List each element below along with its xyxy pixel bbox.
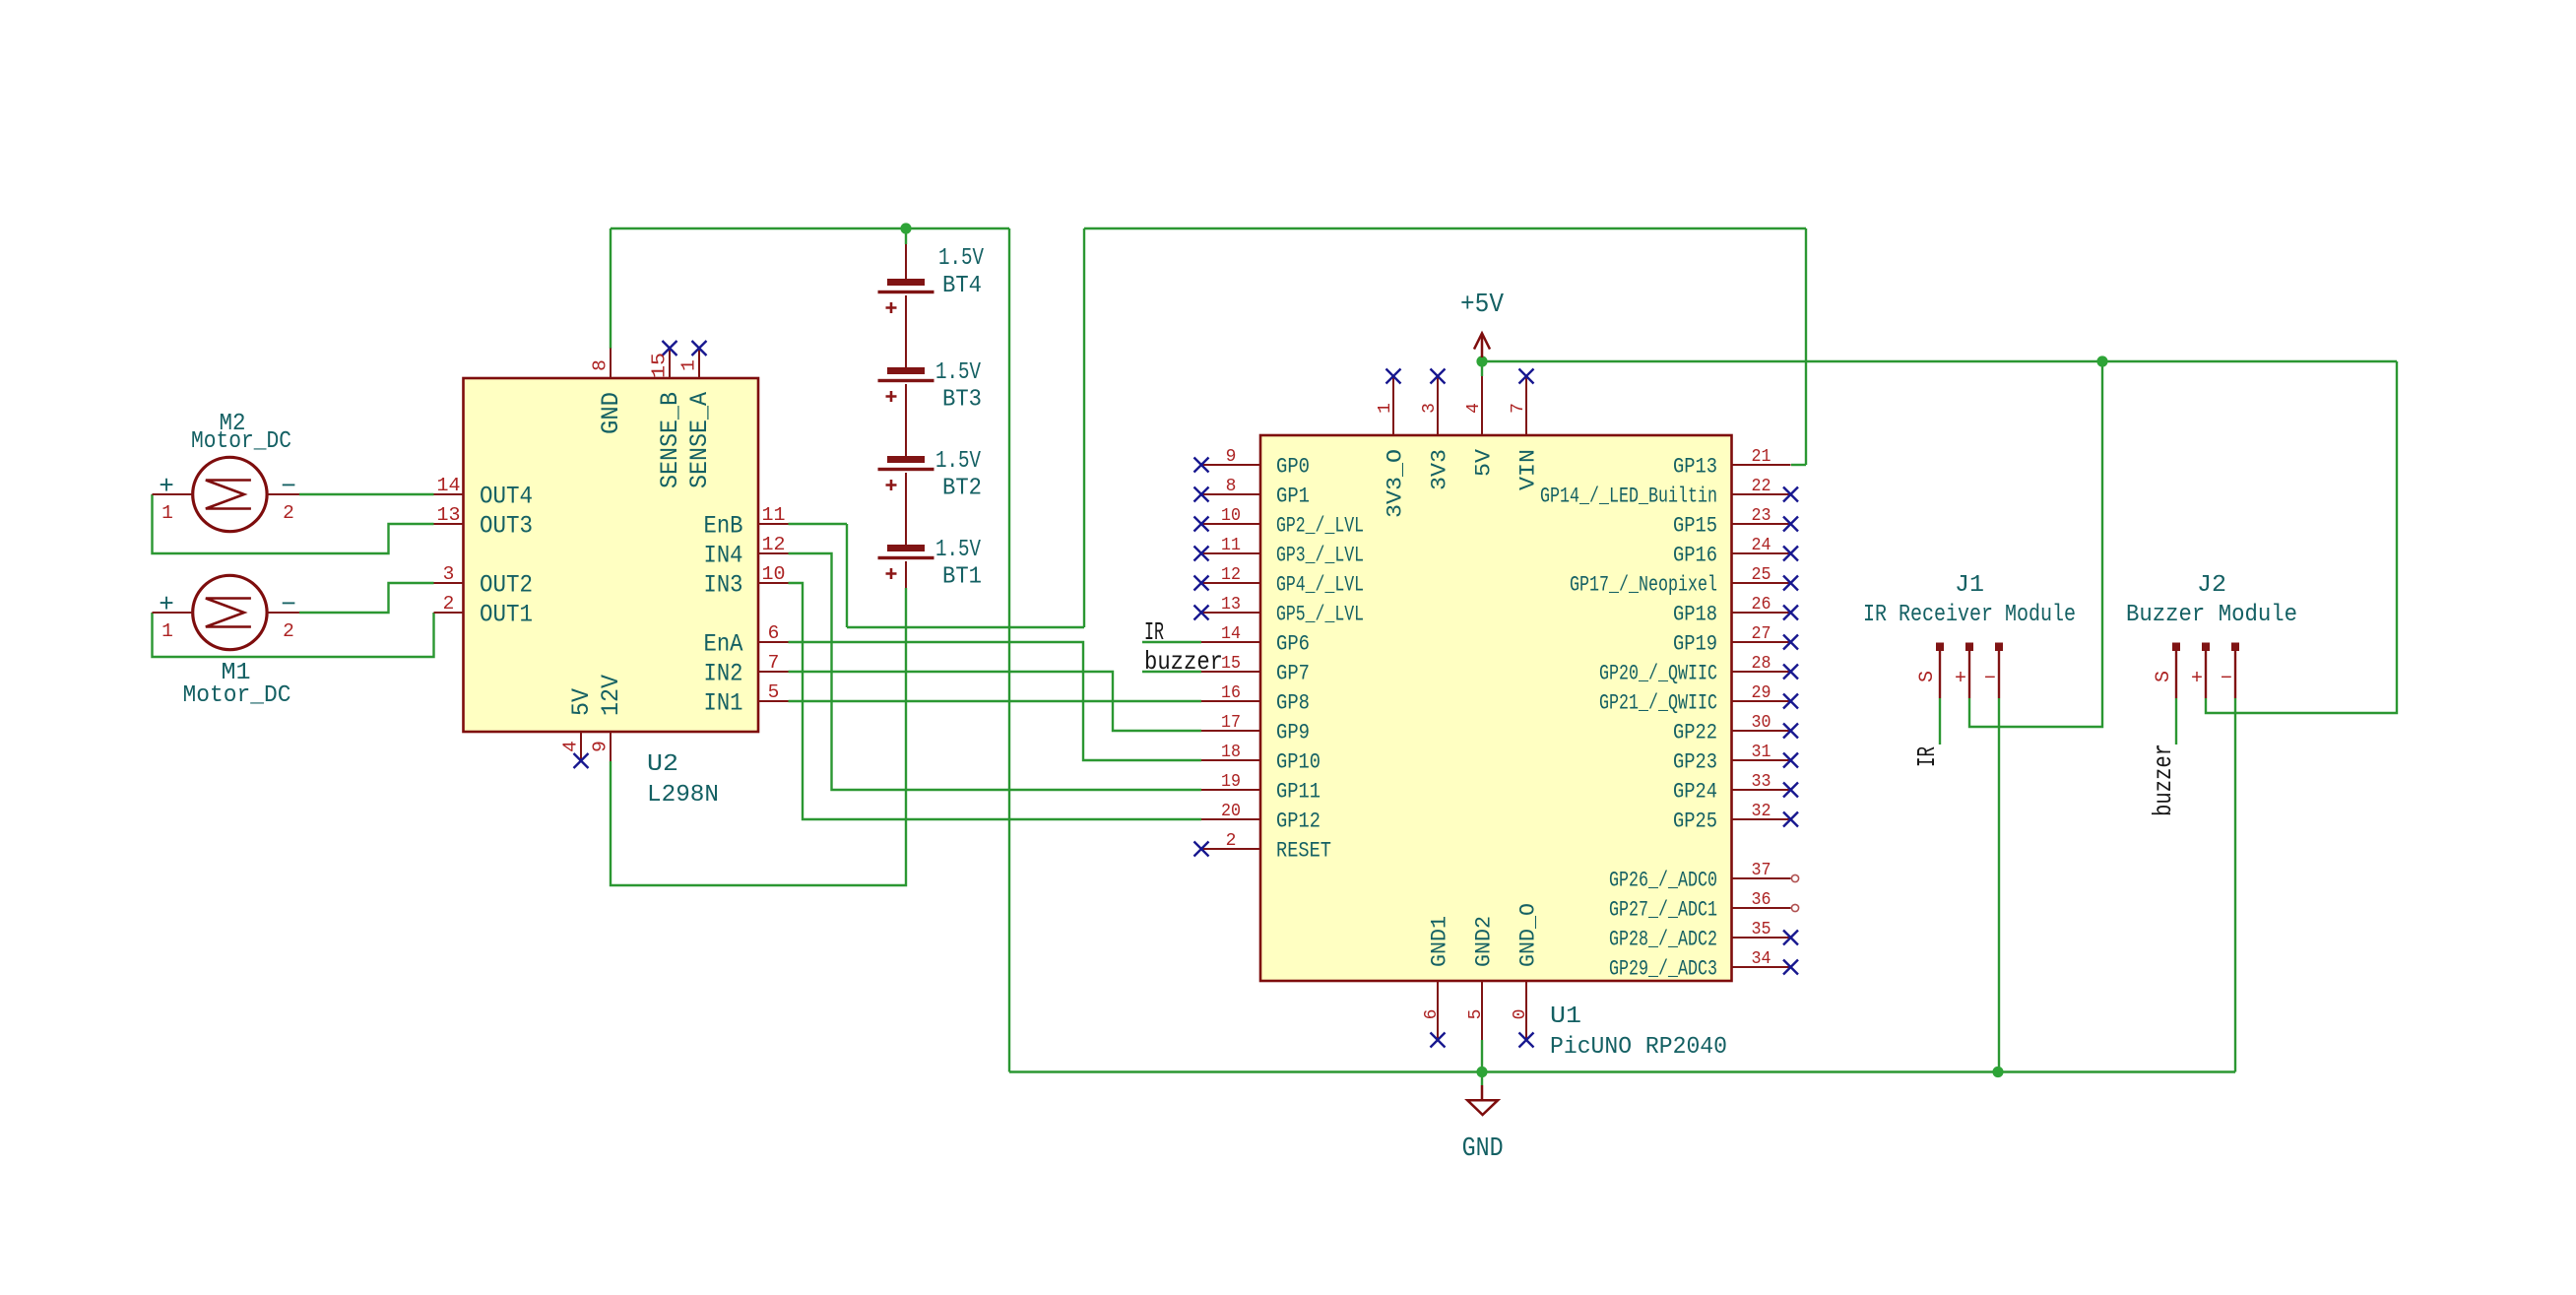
svg-text:OUT2: OUT2 bbox=[480, 571, 533, 600]
svg-text:19: 19 bbox=[1221, 772, 1241, 792]
svg-text:7: 7 bbox=[1509, 403, 1528, 414]
svg-text:GP27_/_ADC1: GP27_/_ADC1 bbox=[1609, 898, 1717, 923]
battery BT4 1.5V cell bbox=[878, 245, 985, 313]
svg-text:0: 0 bbox=[1511, 1009, 1530, 1020]
svg-text:GP16: GP16 bbox=[1673, 544, 1717, 568]
svg-text:35: 35 bbox=[1752, 920, 1771, 939]
IC U1 PicUNO RP2040 body bbox=[1260, 435, 1732, 981]
U1 pin 9 GP0 with no-connect X bbox=[1194, 447, 1311, 480]
U1 pin 34 GP29_/_ADC3 with no-connect X bbox=[1609, 949, 1798, 982]
svg-text:GP20_/_QWIIC: GP20_/_QWIIC bbox=[1599, 662, 1717, 686]
motor M2 M symbol bbox=[206, 481, 251, 509]
svg-text:EnB: EnB bbox=[704, 512, 743, 541]
svg-text:GP9: GP9 bbox=[1276, 721, 1310, 745]
net label buzzer at GP7 bbox=[1144, 647, 1223, 677]
M1 pin 1 (+) bbox=[153, 590, 193, 642]
svg-text:1: 1 bbox=[161, 502, 173, 524]
svg-text:GP12: GP12 bbox=[1276, 809, 1320, 834]
svg-text:GP28_/_ADC2: GP28_/_ADC2 bbox=[1609, 928, 1717, 952]
svg-text:GP21_/_QWIIC: GP21_/_QWIIC bbox=[1599, 691, 1717, 716]
wire +5V pin to +5V symbol bbox=[1481, 361, 1483, 376]
wire IR net label stub at GP6 bbox=[1142, 641, 1201, 643]
svg-text:IR: IR bbox=[1144, 617, 1164, 647]
svg-text:1: 1 bbox=[161, 620, 173, 642]
svg-text:3V3: 3V3 bbox=[1428, 449, 1452, 490]
U1 pin 35 GP28_/_ADC2 with no-connect X bbox=[1609, 920, 1798, 952]
svg-text:−: − bbox=[1984, 668, 1996, 690]
U1 pin 22 GP14_/_LED_Builtin with no-connect X bbox=[1540, 477, 1798, 509]
svg-text:28: 28 bbox=[1752, 654, 1771, 674]
svg-text:2: 2 bbox=[1226, 831, 1237, 851]
U1 pin 7 VIN (top) with no-connect X bbox=[1509, 369, 1541, 491]
U1 pin 27 GP19 with no-connect X bbox=[1673, 624, 1798, 657]
svg-text:GP26_/_ADC0: GP26_/_ADC0 bbox=[1609, 869, 1717, 893]
motor M1 body circle bbox=[193, 575, 267, 649]
U1 pin 28 GP20_/_QWIIC with no-connect X bbox=[1599, 654, 1798, 686]
svg-text:4: 4 bbox=[1464, 403, 1484, 414]
wire M1 minus to OUT2 bbox=[299, 583, 434, 613]
U1 pin 29 GP21_/_QWIIC with no-connect X bbox=[1599, 683, 1798, 716]
svg-text:4: 4 bbox=[560, 741, 582, 752]
wire J1 S pin stub to IR label bbox=[1939, 698, 1941, 745]
wire top GND rail left segment (U2 pin8 to corner x1025) bbox=[611, 227, 1009, 229]
U1 pin 1 3V3_O (top) with no-connect X bbox=[1376, 369, 1408, 519]
svg-text:+: + bbox=[2191, 668, 2203, 690]
svg-text:12: 12 bbox=[762, 534, 786, 555]
wire J2 minus to GND rail bbox=[2234, 698, 2236, 1072]
svg-text:GND2: GND2 bbox=[1472, 916, 1497, 967]
svg-text:2: 2 bbox=[443, 593, 455, 615]
svg-text:IN2: IN2 bbox=[704, 660, 743, 688]
svg-text:GP23: GP23 bbox=[1673, 750, 1717, 775]
svg-text:GP14_/_LED_Builtin: GP14_/_LED_Builtin bbox=[1540, 485, 1717, 509]
svg-text:26: 26 bbox=[1752, 595, 1771, 615]
svg-text:7: 7 bbox=[768, 652, 780, 674]
motor M1 M symbol bbox=[206, 599, 251, 627]
svg-text:Buzzer Module: Buzzer Module bbox=[2126, 602, 2297, 628]
svg-text:Motor_DC: Motor_DC bbox=[183, 682, 291, 709]
svg-text:buzzer: buzzer bbox=[2149, 744, 2178, 816]
svg-text:1: 1 bbox=[1376, 403, 1395, 414]
battery stack connecting pins bbox=[905, 244, 907, 588]
U1 pin 16 GP8 bbox=[1201, 683, 1310, 716]
svg-text:14: 14 bbox=[1221, 624, 1241, 644]
U1 pin 17 GP9 bbox=[1201, 713, 1310, 745]
svg-text:GP18: GP18 bbox=[1673, 603, 1717, 627]
U1 pin 5 GND2 (bottom) bbox=[1466, 916, 1497, 1040]
svg-text:−: − bbox=[2221, 668, 2232, 690]
svg-text:+5V: +5V bbox=[1460, 291, 1505, 320]
svg-text:IR Receiver Module: IR Receiver Module bbox=[1863, 602, 2076, 628]
U1 pin 30 GP22 with no-connect X bbox=[1673, 713, 1798, 745]
svg-text:17: 17 bbox=[1221, 713, 1241, 733]
svg-text:GND: GND bbox=[1462, 1134, 1504, 1164]
svg-text:GP7: GP7 bbox=[1276, 662, 1310, 686]
svg-text:5: 5 bbox=[1466, 1009, 1486, 1020]
U2 pin 4 5V (bottom) with no-connect X bbox=[560, 688, 596, 768]
U1 pin 20 GP12 bbox=[1201, 802, 1320, 834]
svg-text:5V: 5V bbox=[1472, 448, 1497, 477]
svg-text:13: 13 bbox=[437, 504, 461, 526]
svg-text:3V3_O: 3V3_O bbox=[1384, 449, 1408, 518]
svg-text:J1: J1 bbox=[1955, 572, 1984, 599]
U1 pin 21 GP13 bbox=[1673, 447, 1791, 480]
svg-text:9: 9 bbox=[590, 741, 612, 752]
wire IN3 to GP12 bbox=[789, 583, 1202, 819]
U1 pin 13 GP5_/_LVL with no-connect X bbox=[1194, 595, 1365, 627]
U2 pin 3 OUT2 bbox=[434, 563, 534, 600]
U1 pin 0 GND_O (bottom) with no-connect X bbox=[1511, 903, 1541, 1048]
U1 pin 24 GP16 with no-connect X bbox=[1673, 536, 1798, 568]
U1 pin 12 GP4_/_LVL with no-connect X bbox=[1194, 565, 1365, 598]
U1 pin 2 RESET with no-connect X bbox=[1194, 831, 1332, 864]
svg-text:37: 37 bbox=[1752, 861, 1771, 880]
M2 pin 1 (+) bbox=[153, 472, 193, 524]
U1 pin 14 GP6 bbox=[1201, 624, 1310, 657]
wire buzzer net label stub at GP7 bbox=[1142, 671, 1201, 673]
svg-text:GP19: GP19 bbox=[1673, 632, 1717, 657]
svg-text:3: 3 bbox=[1420, 403, 1440, 414]
svg-text:1.5V: 1.5V bbox=[935, 537, 981, 563]
wire top rail right segment to GP13 riser bbox=[1084, 227, 1806, 229]
U2 pin 8 GND (top) bbox=[590, 349, 625, 435]
svg-text:+: + bbox=[1955, 668, 1966, 690]
net label buzzer at J2 S (vertical) bbox=[2149, 744, 2178, 816]
U2 pin 9 12V (bottom) bbox=[590, 675, 625, 761]
svg-text:J2: J2 bbox=[2197, 572, 2226, 599]
svg-text:12V: 12V bbox=[597, 675, 625, 716]
junction +5V at 5V pin bbox=[1476, 356, 1487, 366]
svg-text:−: − bbox=[281, 590, 296, 619]
svg-text:23: 23 bbox=[1752, 506, 1771, 526]
svg-text:33: 33 bbox=[1752, 772, 1771, 792]
svg-text:S: S bbox=[1916, 671, 1939, 682]
svg-text:GP2_/_LVL: GP2_/_LVL bbox=[1276, 514, 1364, 539]
svg-text:IN1: IN1 bbox=[704, 689, 743, 718]
junction +5V rail at J1 feed drop bbox=[2096, 356, 2107, 366]
svg-text:EnA: EnA bbox=[704, 630, 743, 659]
svg-text:+: + bbox=[159, 590, 174, 619]
ground symbol GND bbox=[1462, 1085, 1504, 1164]
svg-text:1: 1 bbox=[678, 359, 700, 371]
svg-text:GP15: GP15 bbox=[1673, 514, 1717, 539]
svg-text:VIN: VIN bbox=[1516, 449, 1541, 490]
M2 reference designator bbox=[220, 411, 246, 437]
svg-text:SENSE_A: SENSE_A bbox=[685, 392, 714, 488]
wire M2 minus to OUT4 bbox=[299, 493, 434, 495]
wire battery bottom to U2 12V pin bbox=[611, 588, 906, 885]
svg-text:GP4_/_LVL: GP4_/_LVL bbox=[1276, 573, 1364, 598]
net label IR at J1 S (vertical) bbox=[1912, 746, 1942, 767]
svg-text:GP11: GP11 bbox=[1276, 780, 1320, 805]
wire +5V rail to right side bbox=[1482, 360, 2397, 362]
U1 pin 6 GND1 (bottom) with no-connect X bbox=[1422, 916, 1452, 1048]
U1 pin 25 GP17_/_Neopixel with no-connect X bbox=[1570, 565, 1798, 598]
battery BT1 1.5V cell bbox=[878, 537, 983, 591]
wire U2 pin8 GND up to top rail bbox=[610, 228, 612, 349]
wire M1 plus loop to OUT1 bbox=[153, 613, 434, 657]
U2 pin 2 OUT1 bbox=[434, 593, 534, 629]
svg-text:BT1: BT1 bbox=[942, 564, 982, 591]
U2 pin 5 IN1 bbox=[704, 681, 789, 718]
svg-text:10: 10 bbox=[1221, 506, 1241, 526]
wire IN2 to GP9 bbox=[789, 672, 1202, 731]
svg-text:15: 15 bbox=[1221, 654, 1241, 674]
svg-text:22: 22 bbox=[1752, 477, 1771, 496]
U2 value L298N bbox=[647, 782, 719, 809]
svg-text:5: 5 bbox=[768, 681, 780, 703]
wire +5V feed to J2 plus pin bbox=[2206, 361, 2397, 713]
U1 pin 4 5V (top) bbox=[1464, 376, 1497, 477]
svg-text:24: 24 bbox=[1752, 536, 1771, 555]
svg-text:OUT4: OUT4 bbox=[480, 483, 533, 511]
svg-text:29: 29 bbox=[1752, 683, 1771, 703]
U2 pin 11 EnB bbox=[704, 504, 789, 541]
M2 value Motor_DC bbox=[191, 428, 291, 455]
svg-text:RESET: RESET bbox=[1276, 839, 1331, 864]
IC U2 L298N body bbox=[464, 378, 759, 732]
wire EnA to GP10 bbox=[789, 642, 1202, 760]
J2 pin 1 S bbox=[2153, 643, 2180, 699]
connector J1 IR Receiver Module bbox=[1863, 572, 2076, 628]
wire bottom GND rail bbox=[1009, 1070, 2235, 1072]
U1 pin 8 GP1 with no-connect X bbox=[1194, 477, 1311, 509]
wire U1 GND2 pin to GND rail and GND symbol bbox=[1481, 1040, 1483, 1085]
svg-text:U2: U2 bbox=[647, 751, 678, 778]
U2 reference designator bbox=[647, 751, 678, 778]
U2 pin 7 IN2 bbox=[704, 652, 789, 688]
U2 pin 1 SENSE_A (top) with no-connect X bbox=[678, 341, 714, 488]
svg-text:21: 21 bbox=[1752, 447, 1771, 467]
svg-text:GP29_/_ADC3: GP29_/_ADC3 bbox=[1609, 957, 1717, 982]
svg-text:16: 16 bbox=[1221, 683, 1241, 703]
svg-text:IR: IR bbox=[1912, 746, 1942, 767]
svg-text:11: 11 bbox=[762, 504, 786, 526]
svg-text:buzzer: buzzer bbox=[1144, 647, 1223, 677]
svg-text:BT3: BT3 bbox=[942, 387, 982, 414]
connector J2 Buzzer Module bbox=[2126, 572, 2297, 628]
svg-text:34: 34 bbox=[1752, 949, 1771, 969]
svg-text:6: 6 bbox=[768, 622, 780, 644]
wire IN4 to GP11 bbox=[789, 553, 1202, 790]
svg-text:11: 11 bbox=[1221, 536, 1241, 555]
U1 value PicUNO RP2040 bbox=[1550, 1034, 1727, 1061]
svg-text:25: 25 bbox=[1752, 565, 1771, 585]
U1 pin 23 GP15 with no-connect X bbox=[1673, 506, 1798, 539]
wire battery top to GND rail bbox=[905, 228, 907, 244]
svg-text:GP8: GP8 bbox=[1276, 691, 1310, 716]
wire EnB net: riser x1101 down, left to x860, up to EnB pin bbox=[789, 228, 1085, 627]
junction GND rail at J1 minus drop bbox=[1992, 1067, 2003, 1077]
junction GND rail at GND symbol bbox=[1476, 1067, 1487, 1077]
junction battery top / GND rail bbox=[900, 223, 911, 233]
U2 pin 14 OUT4 bbox=[434, 475, 534, 511]
svg-text:OUT3: OUT3 bbox=[480, 512, 533, 541]
svg-text:U1: U1 bbox=[1550, 1004, 1581, 1030]
U1 pin 31 GP23 with no-connect X bbox=[1673, 743, 1798, 775]
svg-text:12: 12 bbox=[1221, 565, 1241, 585]
svg-text:BT4: BT4 bbox=[942, 273, 982, 299]
svg-text:GP25: GP25 bbox=[1673, 809, 1717, 834]
J1 pin 1 S bbox=[1916, 643, 1944, 699]
svg-text:1.5V: 1.5V bbox=[935, 359, 981, 386]
U1 pin 32 GP25 with no-connect X bbox=[1673, 802, 1798, 834]
svg-text:20: 20 bbox=[1221, 802, 1241, 821]
svg-text:1.5V: 1.5V bbox=[938, 245, 984, 272]
svg-text:8: 8 bbox=[590, 359, 612, 371]
U1 pin 36 GP27_/_ADC1 with unconnected circle bbox=[1609, 890, 1799, 923]
U2 pin 13 OUT3 bbox=[434, 504, 534, 541]
svg-text:30: 30 bbox=[1752, 713, 1771, 733]
svg-text:+: + bbox=[159, 472, 174, 501]
wire M2 plus loop to OUT3 bbox=[153, 494, 434, 553]
wire GND vertical drop x1025 from top rail to bottom rail bbox=[1008, 228, 1010, 1072]
svg-text:GP17_/_Neopixel: GP17_/_Neopixel bbox=[1570, 573, 1717, 598]
svg-text:6: 6 bbox=[1422, 1009, 1442, 1020]
svg-text:GND: GND bbox=[597, 392, 625, 434]
J2 pin 2 + bbox=[2191, 643, 2210, 699]
svg-text:1.5V: 1.5V bbox=[935, 448, 981, 475]
svg-text:GP1: GP1 bbox=[1276, 485, 1310, 509]
battery BT3 1.5V cell bbox=[878, 359, 983, 414]
svg-text:18: 18 bbox=[1221, 743, 1241, 762]
svg-text:L298N: L298N bbox=[647, 782, 719, 809]
motor M2 body circle bbox=[193, 457, 267, 531]
U2 pin 6 EnA bbox=[704, 622, 789, 659]
J1 pin 3 - bbox=[1984, 643, 2003, 699]
M2 pin 2 (-) bbox=[267, 472, 299, 524]
wire GP13 to riser x1834 bbox=[1791, 228, 1806, 465]
svg-text:2: 2 bbox=[283, 502, 294, 524]
svg-text:IN3: IN3 bbox=[704, 571, 743, 600]
power symbol +5V bbox=[1460, 291, 1505, 357]
svg-text:GP10: GP10 bbox=[1276, 750, 1320, 775]
U1 pin 37 GP26_/_ADC0 with unconnected circle bbox=[1609, 861, 1799, 893]
svg-text:GP3_/_LVL: GP3_/_LVL bbox=[1276, 544, 1364, 568]
svg-text:Motor_DC: Motor_DC bbox=[191, 428, 291, 455]
svg-text:3: 3 bbox=[443, 563, 455, 585]
svg-text:2: 2 bbox=[283, 620, 294, 642]
svg-text:SENSE_B: SENSE_B bbox=[656, 392, 684, 488]
U1 pin 3 3V3 (top) with no-connect X bbox=[1420, 369, 1452, 491]
svg-text:5V: 5V bbox=[567, 688, 596, 716]
svg-text:GND1: GND1 bbox=[1428, 916, 1452, 967]
svg-text:9: 9 bbox=[1226, 447, 1237, 467]
svg-text:GP22: GP22 bbox=[1673, 721, 1717, 745]
U1 pin 33 GP24 with no-connect X bbox=[1673, 772, 1798, 805]
battery BT2 1.5V cell bbox=[878, 448, 983, 502]
svg-text:15: 15 bbox=[649, 353, 671, 378]
svg-text:32: 32 bbox=[1752, 802, 1771, 821]
svg-text:IN4: IN4 bbox=[704, 542, 743, 570]
svg-text:PicUNO RP2040: PicUNO RP2040 bbox=[1550, 1034, 1727, 1061]
J2 pin 3 - bbox=[2221, 643, 2239, 699]
U2 pin 15 SENSE_B (top) with no-connect X bbox=[649, 341, 684, 488]
J1 pin 2 + bbox=[1955, 643, 1973, 699]
U2 pin 12 IN4 bbox=[704, 534, 789, 570]
net label IR at GP6 bbox=[1144, 617, 1164, 647]
U1 pin 18 GP10 bbox=[1201, 743, 1320, 775]
svg-text:GP5_/_LVL: GP5_/_LVL bbox=[1276, 603, 1364, 627]
svg-text:S: S bbox=[2153, 671, 2175, 682]
svg-text:BT2: BT2 bbox=[942, 476, 982, 502]
U1 reference designator bbox=[1550, 1004, 1581, 1030]
svg-text:OUT1: OUT1 bbox=[480, 601, 533, 629]
svg-text:10: 10 bbox=[762, 563, 786, 585]
svg-text:GP24: GP24 bbox=[1673, 780, 1717, 805]
wire +5V feed to J1 plus pin bbox=[1969, 361, 2102, 727]
M1 pin 2 (-) bbox=[267, 590, 299, 642]
svg-text:27: 27 bbox=[1752, 624, 1771, 644]
U1 pin 19 GP11 bbox=[1201, 772, 1320, 805]
U1 pin 11 GP3_/_LVL with no-connect X bbox=[1194, 536, 1365, 568]
U1 pin 15 GP7 bbox=[1201, 654, 1310, 686]
M1 reference designator bbox=[222, 660, 251, 686]
svg-text:13: 13 bbox=[1221, 595, 1241, 615]
U1 pin 10 GP2_/_LVL with no-connect X bbox=[1194, 506, 1365, 539]
U2 pin 10 IN3 bbox=[704, 563, 789, 600]
svg-text:31: 31 bbox=[1752, 743, 1771, 762]
wire J2 S pin stub to buzzer label bbox=[2175, 698, 2177, 745]
U1 pin 26 GP18 with no-connect X bbox=[1673, 595, 1798, 627]
svg-text:GP0: GP0 bbox=[1276, 455, 1310, 480]
svg-text:−: − bbox=[281, 472, 296, 501]
svg-text:GP13: GP13 bbox=[1673, 455, 1717, 480]
svg-text:GP6: GP6 bbox=[1276, 632, 1310, 657]
svg-text:GND_O: GND_O bbox=[1516, 903, 1541, 967]
svg-text:8: 8 bbox=[1226, 477, 1237, 496]
wire IN1 to GP8 bbox=[789, 700, 1202, 702]
svg-text:14: 14 bbox=[437, 475, 461, 496]
svg-text:36: 36 bbox=[1752, 890, 1771, 910]
M1 value Motor_DC bbox=[183, 682, 291, 709]
wire J1 minus to GND rail bbox=[1998, 698, 2000, 1072]
